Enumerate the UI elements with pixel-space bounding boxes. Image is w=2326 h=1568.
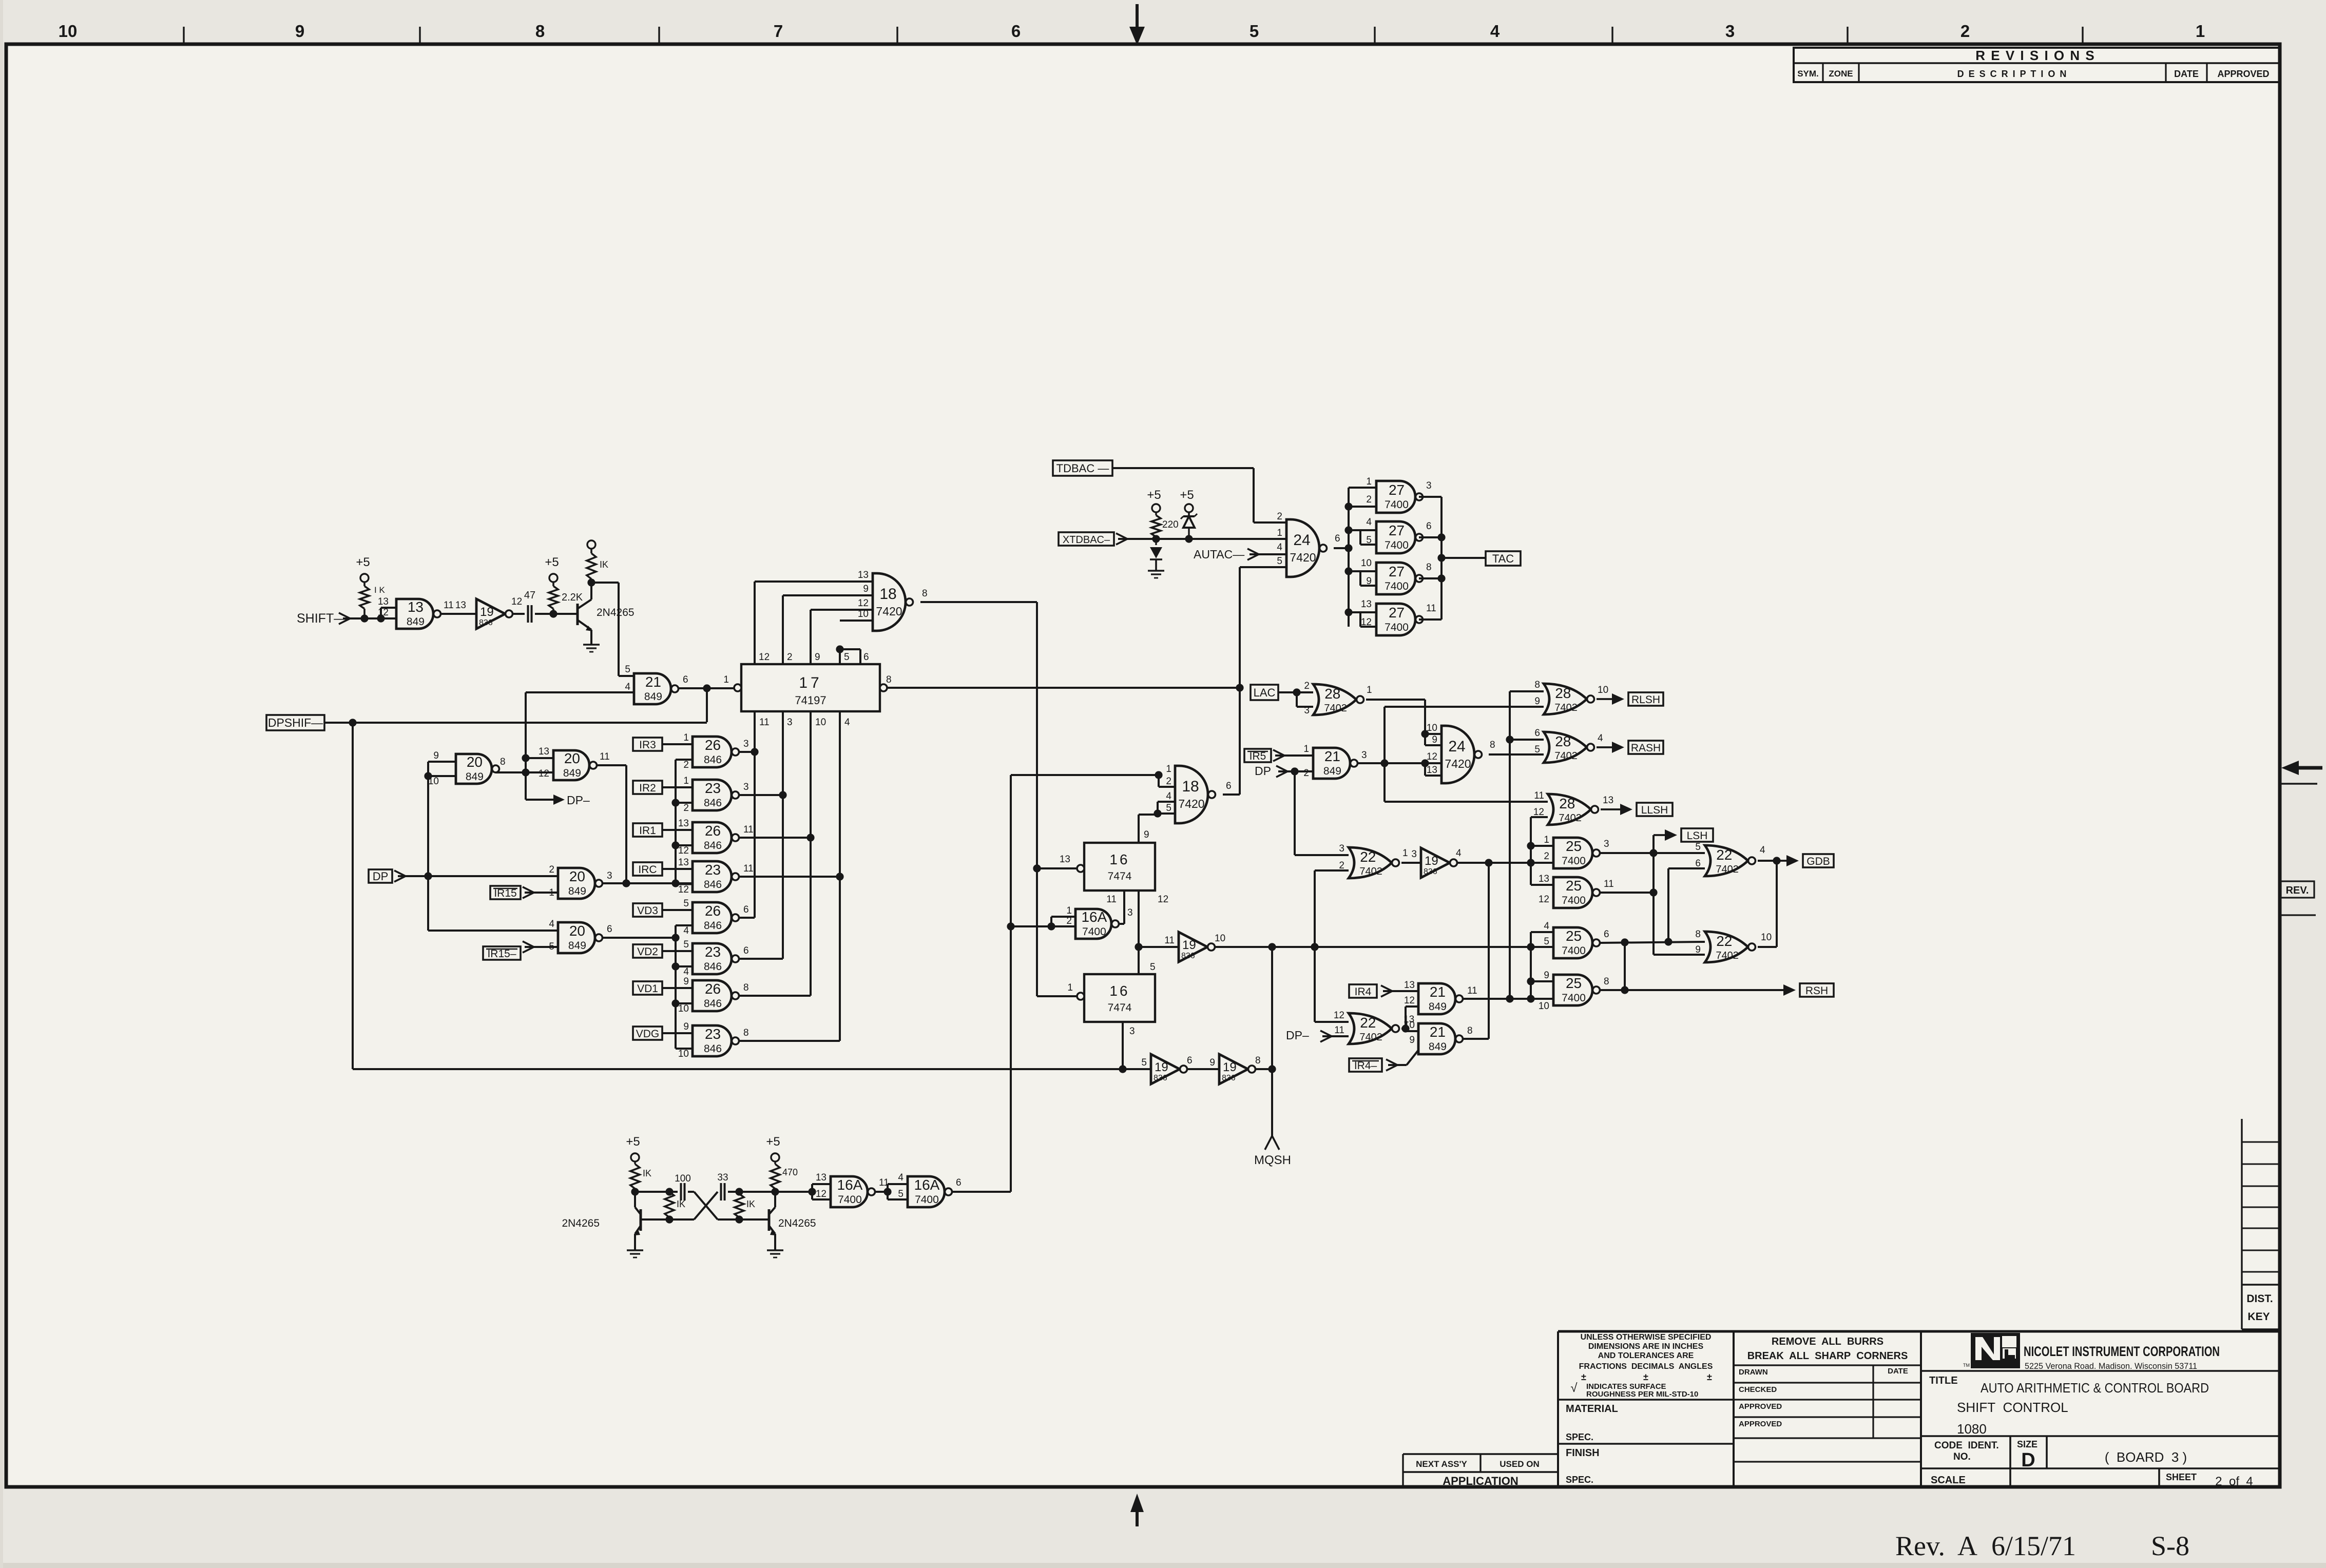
- svg-text:849: 849: [568, 940, 586, 952]
- svg-text:12: 12: [1334, 1010, 1344, 1021]
- svg-text:6: 6: [683, 674, 688, 685]
- svg-text:13: 13: [678, 857, 689, 868]
- svg-text:7402: 7402: [1359, 1032, 1382, 1043]
- svg-text:NO.: NO.: [1953, 1451, 1971, 1462]
- svg-text:2: 2: [1303, 768, 1309, 779]
- svg-text:22: 22: [1360, 1015, 1376, 1031]
- svg-text:13: 13: [1361, 599, 1372, 610]
- svg-text:AND TOLERANCES ARE: AND TOLERANCES ARE: [1598, 1351, 1694, 1360]
- svg-text:REMOVE ALL BURRS: REMOVE ALL BURRS: [1772, 1336, 1883, 1347]
- svg-text:NEXT ASS'Y: NEXT ASS'Y: [1416, 1459, 1467, 1469]
- svg-text:9: 9: [1144, 829, 1149, 840]
- svg-text:849: 849: [1429, 1041, 1447, 1053]
- svg-text:2: 2: [683, 803, 689, 814]
- svg-text:9: 9: [683, 1021, 689, 1032]
- svg-text:7402: 7402: [1716, 864, 1739, 875]
- svg-text:2: 2: [1066, 916, 1072, 926]
- svg-text:4: 4: [1544, 921, 1549, 932]
- svg-text:9: 9: [1432, 734, 1437, 745]
- svg-text:Rev. A 6/15/71: Rev. A 6/15/71: [1895, 1531, 2076, 1561]
- svg-text:10: 10: [678, 1003, 689, 1014]
- svg-text:VD1: VD1: [637, 983, 658, 995]
- svg-text:23: 23: [705, 862, 721, 878]
- svg-text:23: 23: [705, 1026, 721, 1042]
- svg-text:846: 846: [704, 961, 722, 973]
- svg-text:8: 8: [1426, 562, 1432, 573]
- svg-text:11: 11: [600, 751, 610, 762]
- svg-text:8: 8: [1604, 976, 1609, 987]
- svg-text:10: 10: [1761, 932, 1772, 943]
- svg-text:+5: +5: [545, 555, 559, 569]
- svg-text:AUTAC—: AUTAC—: [1194, 548, 1244, 561]
- svg-text:7400: 7400: [1562, 945, 1586, 957]
- svg-text:7400: 7400: [915, 1194, 939, 1206]
- svg-text:13: 13: [1404, 980, 1415, 991]
- svg-text:ZONE: ZONE: [1829, 69, 1853, 79]
- svg-text:11: 11: [743, 824, 754, 835]
- svg-text:+5: +5: [1180, 488, 1194, 502]
- svg-text:28: 28: [1555, 685, 1571, 701]
- svg-text:10: 10: [1539, 1001, 1549, 1012]
- svg-text:3: 3: [743, 782, 749, 792]
- svg-text:DATE: DATE: [1888, 1367, 1908, 1376]
- svg-text:5: 5: [1695, 842, 1701, 853]
- svg-text:220: 220: [1162, 519, 1179, 530]
- svg-text:TDBAC —: TDBAC —: [1056, 462, 1109, 475]
- svg-text:FINISH: FINISH: [1566, 1447, 1600, 1459]
- svg-text:7400: 7400: [1385, 622, 1409, 633]
- svg-text:2: 2: [1544, 851, 1549, 862]
- svg-text:7402: 7402: [1359, 866, 1382, 877]
- svg-text:7420: 7420: [1290, 551, 1316, 564]
- svg-text:7400: 7400: [1562, 992, 1586, 1004]
- svg-text:11: 11: [1534, 790, 1544, 801]
- svg-text:8: 8: [1534, 680, 1540, 690]
- svg-text:IK: IK: [677, 1199, 685, 1209]
- svg-text:RLSH: RLSH: [1631, 694, 1660, 706]
- svg-text:849: 849: [568, 885, 586, 897]
- svg-text:22: 22: [1360, 849, 1376, 865]
- svg-text:19: 19: [1223, 1060, 1237, 1074]
- svg-text:10: 10: [1427, 723, 1437, 733]
- svg-text:+5: +5: [766, 1135, 780, 1149]
- svg-text:6: 6: [1426, 521, 1432, 532]
- svg-text:7402: 7402: [1559, 812, 1582, 824]
- svg-text:23: 23: [705, 780, 721, 796]
- svg-text:9: 9: [1209, 1057, 1215, 1068]
- svg-text:13: 13: [678, 818, 689, 829]
- svg-text:4: 4: [844, 717, 850, 728]
- svg-text:849: 849: [563, 767, 581, 779]
- svg-text:DP: DP: [373, 870, 389, 883]
- svg-text:IR2: IR2: [639, 782, 656, 794]
- svg-text:4: 4: [1166, 791, 1171, 802]
- svg-text:25: 25: [1566, 838, 1582, 854]
- svg-text:846: 846: [704, 998, 722, 1010]
- svg-text:2N4265: 2N4265: [562, 1217, 600, 1229]
- svg-text:836: 836: [479, 618, 493, 627]
- svg-text:SHIFT CONTROL: SHIFT CONTROL: [1957, 1400, 2068, 1415]
- svg-text:2: 2: [1166, 776, 1171, 787]
- svg-text:7402: 7402: [1554, 750, 1578, 762]
- svg-text:VD3: VD3: [637, 905, 658, 917]
- svg-text:13: 13: [539, 746, 549, 757]
- svg-text:5: 5: [1141, 1057, 1147, 1068]
- svg-text:16: 16: [1109, 851, 1129, 867]
- svg-text:18: 18: [879, 586, 896, 603]
- svg-text:4: 4: [683, 966, 689, 977]
- svg-text:13: 13: [408, 599, 424, 615]
- svg-text:4: 4: [1598, 733, 1603, 744]
- svg-text:849: 849: [1429, 1001, 1447, 1013]
- svg-text:CHECKED: CHECKED: [1739, 1385, 1777, 1394]
- svg-text:7420: 7420: [1445, 757, 1471, 770]
- svg-text:6: 6: [1226, 781, 1232, 791]
- svg-text:IK: IK: [643, 1168, 651, 1178]
- svg-text:9: 9: [295, 22, 304, 41]
- svg-text:9: 9: [815, 652, 820, 663]
- svg-text:3: 3: [1604, 839, 1609, 849]
- svg-text:√: √: [1570, 1381, 1578, 1395]
- svg-text:RASH: RASH: [1631, 742, 1661, 754]
- svg-text:IR3: IR3: [639, 739, 656, 751]
- svg-text:5: 5: [844, 652, 850, 663]
- svg-text:9: 9: [1366, 576, 1372, 587]
- svg-text:20: 20: [564, 750, 580, 766]
- svg-text:3: 3: [787, 717, 793, 728]
- svg-text:+5: +5: [1147, 488, 1161, 502]
- svg-text:12: 12: [1158, 894, 1168, 905]
- svg-text:3: 3: [1339, 843, 1344, 854]
- svg-text:RSH: RSH: [1805, 985, 1828, 997]
- svg-text:8: 8: [1467, 1025, 1473, 1036]
- svg-text:11: 11: [1604, 879, 1614, 889]
- svg-text:9: 9: [1544, 970, 1549, 981]
- svg-text:APPROVED: APPROVED: [1739, 1420, 1782, 1428]
- svg-text:8: 8: [743, 1028, 749, 1038]
- svg-text:IR5: IR5: [1249, 750, 1266, 762]
- svg-text:5: 5: [1249, 22, 1259, 41]
- svg-text:24: 24: [1448, 738, 1465, 755]
- svg-text:11: 11: [444, 600, 454, 611]
- svg-text:UNLESS OTHERWISE SPECIFIED: UNLESS OTHERWISE SPECIFIED: [1581, 1333, 1712, 1342]
- svg-text:12: 12: [816, 1189, 826, 1199]
- svg-text:1: 1: [683, 732, 689, 743]
- svg-text:VDG: VDG: [636, 1028, 660, 1040]
- svg-text:DRAWN: DRAWN: [1739, 1368, 1768, 1377]
- svg-text:1: 1: [1277, 528, 1282, 538]
- svg-text:849: 849: [466, 771, 484, 783]
- svg-text:13: 13: [378, 596, 389, 607]
- svg-text:DP: DP: [1255, 764, 1271, 778]
- svg-text:2N4265: 2N4265: [778, 1217, 816, 1229]
- svg-text:BREAK ALL SHARP CORNERS: BREAK ALL SHARP CORNERS: [1747, 1350, 1908, 1362]
- svg-text:100: 100: [675, 1173, 691, 1184]
- svg-text:846: 846: [704, 1043, 722, 1055]
- svg-text:DPSHIF—: DPSHIF—: [268, 716, 323, 729]
- svg-text:2 of 4: 2 of 4: [2215, 1475, 2253, 1488]
- svg-text:8: 8: [1255, 1055, 1261, 1066]
- svg-text:10: 10: [1404, 1020, 1415, 1031]
- svg-text:7400: 7400: [1385, 580, 1409, 592]
- svg-text:20: 20: [467, 754, 483, 770]
- svg-text:2N4265: 2N4265: [597, 607, 635, 618]
- svg-text:1: 1: [723, 674, 729, 685]
- svg-text:2: 2: [1339, 860, 1344, 871]
- svg-text:6: 6: [863, 652, 869, 663]
- svg-text:2: 2: [1366, 494, 1372, 505]
- svg-text:6: 6: [743, 945, 749, 956]
- svg-text:10: 10: [1361, 558, 1372, 569]
- svg-text:13: 13: [1539, 874, 1549, 884]
- svg-text:7: 7: [774, 22, 783, 41]
- svg-text:5: 5: [1150, 962, 1156, 973]
- svg-text:7420: 7420: [1178, 797, 1204, 810]
- svg-text:7402: 7402: [1324, 703, 1347, 714]
- svg-text:28: 28: [1559, 796, 1575, 811]
- svg-text:6: 6: [1187, 1055, 1193, 1066]
- svg-text:1: 1: [1367, 685, 1372, 695]
- svg-text:5: 5: [1544, 936, 1549, 947]
- svg-text:SCALE: SCALE: [1931, 1475, 1966, 1486]
- svg-text:26: 26: [705, 981, 721, 997]
- svg-text:6: 6: [743, 904, 749, 915]
- svg-text:8: 8: [500, 757, 506, 767]
- svg-text:4: 4: [1760, 845, 1765, 856]
- svg-text:AUTO ARITHMETIC & CONTROL: AUTO ARITHMETIC & CONTROL BOARD: [1981, 1380, 2209, 1396]
- svg-text:26: 26: [705, 903, 721, 919]
- svg-text:IR15–: IR15–: [487, 948, 516, 960]
- svg-text:7400: 7400: [1562, 855, 1586, 867]
- svg-text:2: 2: [787, 652, 793, 663]
- svg-text:SHEET: SHEET: [2166, 1472, 2197, 1482]
- svg-text:MATERIAL: MATERIAL: [1566, 1403, 1618, 1415]
- svg-text:APPLICATION: APPLICATION: [1443, 1475, 1518, 1487]
- svg-text:5: 5: [683, 939, 689, 950]
- svg-text:13: 13: [1603, 795, 1613, 806]
- svg-text:8: 8: [886, 674, 892, 685]
- svg-text:24: 24: [1293, 532, 1310, 549]
- svg-text:22: 22: [1716, 847, 1732, 863]
- svg-text:DIST.: DIST.: [2246, 1293, 2273, 1305]
- svg-text:LLSH: LLSH: [1641, 804, 1668, 816]
- svg-text:APPROVED: APPROVED: [1739, 1402, 1782, 1411]
- svg-text:16: 16: [1109, 983, 1129, 999]
- svg-text:LAC: LAC: [1254, 686, 1276, 699]
- svg-text:3: 3: [1129, 1026, 1135, 1037]
- svg-text:9: 9: [863, 584, 869, 594]
- svg-text:IK: IK: [600, 559, 608, 570]
- svg-text:REV.: REV.: [2286, 885, 2309, 896]
- svg-text:6: 6: [956, 1177, 962, 1188]
- svg-text:IR1: IR1: [639, 825, 656, 837]
- svg-text:9: 9: [433, 750, 439, 761]
- svg-text:3: 3: [1411, 849, 1417, 860]
- svg-text:8: 8: [1695, 929, 1701, 940]
- svg-text:19: 19: [1425, 854, 1438, 868]
- svg-text:12: 12: [1539, 894, 1549, 905]
- svg-text:47: 47: [524, 590, 535, 601]
- svg-text:13: 13: [1060, 854, 1070, 865]
- svg-text:SIZE: SIZE: [2017, 1439, 2037, 1449]
- svg-text:4: 4: [898, 1172, 904, 1183]
- svg-text:1: 1: [2196, 22, 2205, 41]
- svg-text:USED ON: USED ON: [1500, 1459, 1539, 1469]
- svg-text:26: 26: [705, 737, 721, 753]
- svg-text:3: 3: [1127, 907, 1133, 918]
- svg-text:2: 2: [549, 864, 554, 875]
- svg-text:TITLE: TITLE: [1929, 1375, 1958, 1386]
- svg-text:9: 9: [1695, 944, 1701, 955]
- svg-text:1: 1: [1303, 744, 1309, 754]
- svg-text:23: 23: [705, 944, 721, 960]
- svg-text:8: 8: [743, 982, 749, 993]
- svg-text:10: 10: [1598, 685, 1608, 695]
- svg-text:7400: 7400: [1385, 539, 1409, 551]
- svg-text:7400: 7400: [1082, 926, 1106, 938]
- svg-text:DIMENSIONS ARE IN INCHES: DIMENSIONS ARE IN INCHES: [1588, 1342, 1704, 1351]
- svg-text:KEY: KEY: [2247, 1311, 2270, 1323]
- svg-text:21: 21: [1430, 1024, 1446, 1040]
- svg-text:28: 28: [1555, 733, 1571, 749]
- svg-text:846: 846: [704, 879, 722, 891]
- svg-text:±: ±: [1643, 1372, 1648, 1382]
- svg-text:3: 3: [1426, 480, 1432, 491]
- svg-text:25: 25: [1566, 928, 1582, 944]
- svg-text:11: 11: [1426, 603, 1436, 614]
- svg-text:10: 10: [815, 717, 826, 728]
- svg-text:ROUGHNESS PER MIL-STD-10: ROUGHNESS PER MIL-STD-10: [1586, 1390, 1698, 1399]
- svg-text:19: 19: [1155, 1060, 1168, 1074]
- svg-text:20: 20: [569, 868, 585, 884]
- svg-text:SYM.: SYM.: [1797, 69, 1819, 79]
- svg-text:12: 12: [1427, 751, 1437, 762]
- svg-text:XTDBAC–: XTDBAC–: [1063, 534, 1110, 546]
- svg-text:12: 12: [1361, 617, 1372, 628]
- svg-text:1: 1: [1402, 848, 1408, 859]
- svg-text:7400: 7400: [838, 1194, 862, 1206]
- svg-text:S-8: S-8: [2151, 1531, 2189, 1561]
- svg-text:12: 12: [759, 652, 770, 663]
- svg-text:849: 849: [1323, 765, 1341, 777]
- svg-text:1080: 1080: [1957, 1421, 1987, 1437]
- svg-text:NICOLET INSTRUMENT CORPORATION: NICOLET INSTRUMENT CORPORATION: [2024, 1344, 2220, 1359]
- svg-text:( BOARD 3 ): ( BOARD 3 ): [2105, 1449, 2187, 1465]
- svg-text:12: 12: [539, 768, 549, 779]
- svg-text:11: 11: [1164, 935, 1175, 946]
- svg-text:10: 10: [678, 1049, 689, 1059]
- svg-text:4: 4: [625, 682, 630, 692]
- svg-text:3: 3: [1304, 705, 1310, 716]
- svg-text:846: 846: [704, 797, 722, 809]
- svg-text:CODE IDENT.: CODE IDENT.: [1934, 1440, 1999, 1451]
- svg-text:836: 836: [1424, 867, 1437, 876]
- svg-text:1: 1: [1544, 835, 1549, 845]
- svg-text:IR15: IR15: [494, 887, 516, 899]
- svg-text:10: 10: [1215, 933, 1225, 944]
- svg-text:IR4–: IR4–: [1354, 1060, 1377, 1072]
- svg-text:FRACTIONS DECIMALS ANGLES: FRACTIONS DECIMALS ANGLES: [1579, 1362, 1713, 1371]
- svg-text:17: 17: [799, 674, 822, 691]
- svg-text:27: 27: [1389, 522, 1405, 538]
- svg-text:12: 12: [858, 598, 869, 609]
- svg-text:DP–: DP–: [567, 793, 590, 807]
- svg-text:11: 11: [743, 863, 754, 874]
- svg-text:2: 2: [1960, 22, 1970, 41]
- svg-text:4: 4: [1456, 848, 1462, 859]
- svg-text:2.2K: 2.2K: [562, 592, 583, 603]
- svg-text:+5: +5: [356, 555, 370, 569]
- svg-text:836: 836: [1222, 1074, 1236, 1082]
- svg-text:28: 28: [1324, 686, 1340, 702]
- svg-text:4: 4: [1277, 542, 1282, 553]
- svg-text:5225 Verona Road. Madison. Wis: 5225 Verona Road. Madison. Wisconsin 537…: [2025, 1361, 2197, 1371]
- svg-text:IK: IK: [746, 1199, 755, 1209]
- svg-text:4: 4: [1366, 517, 1372, 528]
- svg-text:2: 2: [1277, 511, 1282, 522]
- svg-text:846: 846: [704, 840, 722, 851]
- svg-text:SPEC.: SPEC.: [1566, 1475, 1593, 1485]
- svg-text:6: 6: [1011, 22, 1021, 41]
- svg-text:10: 10: [428, 776, 439, 787]
- svg-text:5: 5: [1366, 535, 1372, 546]
- svg-text:9: 9: [683, 976, 689, 987]
- svg-text:LSH: LSH: [1687, 830, 1708, 842]
- svg-text:SPEC.: SPEC.: [1566, 1432, 1593, 1442]
- svg-text:1: 1: [1366, 476, 1372, 487]
- svg-text:7402: 7402: [1716, 950, 1739, 961]
- svg-text:25: 25: [1566, 975, 1582, 991]
- svg-text:6: 6: [1335, 533, 1340, 544]
- svg-text:6: 6: [1534, 728, 1540, 739]
- svg-text:12: 12: [678, 884, 689, 895]
- svg-text:6: 6: [1604, 929, 1609, 940]
- svg-text:33: 33: [717, 1172, 728, 1183]
- svg-text:7402: 7402: [1554, 702, 1578, 713]
- svg-text:IRC: IRC: [638, 864, 657, 876]
- svg-text:12: 12: [378, 607, 389, 618]
- svg-text:3: 3: [743, 739, 749, 749]
- svg-text:26: 26: [705, 823, 721, 839]
- svg-text:11: 11: [1106, 894, 1117, 905]
- svg-text:8: 8: [1490, 740, 1495, 750]
- svg-text:11: 11: [1467, 985, 1477, 996]
- svg-text:11: 11: [759, 717, 770, 728]
- svg-text:MQSH: MQSH: [1254, 1153, 1291, 1167]
- svg-text:TAC: TAC: [1492, 552, 1514, 565]
- svg-text:DATE: DATE: [2174, 69, 2199, 79]
- svg-text:27: 27: [1389, 482, 1405, 498]
- svg-text:7400: 7400: [1385, 499, 1409, 511]
- svg-text:5: 5: [1534, 744, 1540, 755]
- svg-text:21: 21: [1430, 984, 1446, 1000]
- svg-text:22: 22: [1716, 933, 1732, 949]
- svg-text:18: 18: [1182, 778, 1199, 795]
- svg-text:470: 470: [782, 1167, 798, 1177]
- svg-text:+5: +5: [626, 1135, 640, 1149]
- svg-text:7420: 7420: [876, 605, 902, 618]
- svg-text:IR4: IR4: [1355, 986, 1372, 998]
- svg-text:3: 3: [1725, 22, 1735, 41]
- svg-text:13: 13: [858, 570, 869, 580]
- svg-text:836: 836: [1181, 952, 1195, 960]
- svg-text:10: 10: [59, 22, 78, 41]
- svg-text:4: 4: [549, 919, 554, 930]
- svg-text:6: 6: [607, 924, 612, 935]
- svg-text:9: 9: [1409, 1035, 1415, 1046]
- svg-text:8: 8: [922, 588, 928, 599]
- svg-text:13: 13: [455, 600, 466, 611]
